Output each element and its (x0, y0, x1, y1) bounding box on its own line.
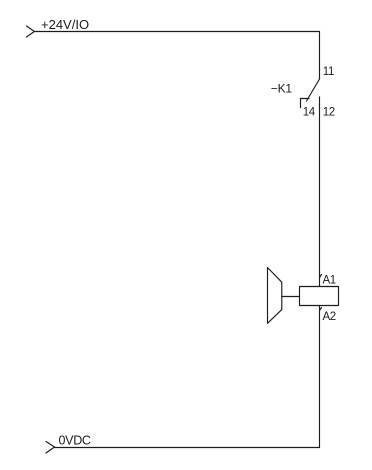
buzzer H1 coil body (rectangle) (300, 287, 339, 306)
wire: right vertical drop to contact pin 11 (319, 32, 321, 80)
wire: bottom rail 0VDC (55, 447, 320, 449)
source arrow bottom-left (0VDC feed) (46, 442, 55, 454)
wire: top rail +24V/IO (34, 31, 319, 33)
svg-text:14: 14 (303, 106, 316, 118)
terminal tick A2 (320, 308, 322, 311)
svg-text:−K1: −K1 (271, 82, 293, 96)
svg-text:A2: A2 (323, 311, 336, 323)
contact K1 terminal 14 seat (corner bracket) (301, 99, 310, 108)
terminal tick A1 (320, 275, 322, 278)
buzzer horn cone (trapezoid) (268, 268, 282, 324)
svg-text:+24V/IO: +24V/IO (41, 17, 89, 32)
svg-text:A1: A1 (323, 275, 336, 287)
wire: contact pin 12 down to buzzer terminal A1 (319, 97, 321, 287)
svg-text:11: 11 (323, 66, 334, 78)
svg-text:0VDC: 0VDC (59, 434, 91, 448)
source arrow top-left (+24V/IO feed) (27, 26, 35, 37)
svg-text:12: 12 (323, 106, 335, 118)
wire: horn to coil connector (282, 296, 300, 298)
wire: buzzer A2 down to bottom rail (319, 306, 321, 448)
contact K1 movable blade (diagonal) (307, 79, 320, 101)
